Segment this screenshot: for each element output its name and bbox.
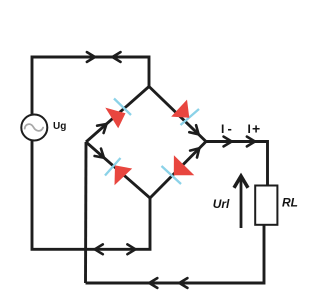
arrow on upper-left arm toward T bbox=[97, 124, 106, 133]
arrow right on output wire under I+ bbox=[247, 137, 255, 147]
Url voltage arrowhead up bbox=[234, 176, 248, 188]
svg-text:Ug: Ug bbox=[53, 121, 66, 132]
Url voltage arrow shaft bbox=[240, 179, 243, 228]
wire bottom return from left node to RL bottom bbox=[86, 225, 265, 283]
arrow right on middle bottom wire bbox=[127, 244, 135, 254]
arrow on upper-right arm toward R bbox=[189, 125, 198, 134]
arrow left on middle bottom wire bbox=[95, 244, 103, 254]
wire bridge arm T to R (upper-right) bbox=[149, 87, 206, 142]
wire bridge right node to RL top (positive output) bbox=[206, 142, 268, 186]
arrow right on top wire bbox=[87, 52, 95, 62]
AC source U_g circle bbox=[21, 115, 47, 141]
wire from Ug bottom terminal down and across to bridge bottom node bbox=[32, 140, 150, 249]
arrow left on bottom return wire (second) bbox=[179, 278, 187, 288]
diode D4 lower-left arm (points B to L) bbox=[105, 158, 132, 185]
svg-text:-: - bbox=[228, 121, 232, 136]
svg-text:RL: RL bbox=[282, 196, 298, 210]
arrow right on output wire under I- bbox=[224, 137, 232, 147]
wire bridge arm L to T (upper-left) bbox=[86, 87, 149, 143]
wire bridge arm B to R (lower-right) bbox=[150, 142, 206, 199]
svg-text:I: I bbox=[248, 122, 251, 136]
wire bridge left node down to bottom return bbox=[84, 142, 87, 283]
svg-text:+: + bbox=[252, 121, 260, 137]
arrow on lower-left arm toward B bbox=[95, 149, 104, 158]
wire bridge arm L to B (lower-left) bbox=[86, 142, 150, 198]
resistor RL box bbox=[255, 186, 277, 225]
svg-text:I: I bbox=[221, 122, 224, 136]
arrow left on bottom return wire (first) bbox=[149, 278, 157, 288]
diode D2 upper-right arm (points T to R) bbox=[171, 100, 199, 125]
wire from Ug top terminal up and across to bridge top node bbox=[32, 57, 149, 115]
diode D1 upper-left arm (points L to T) bbox=[105, 99, 131, 129]
svg-text:Url: Url bbox=[213, 197, 230, 211]
arrow left on top wire bbox=[112, 52, 120, 62]
diode D3 lower-right arm (points R to B) bbox=[162, 155, 195, 184]
sine symbol inside source bbox=[25, 124, 43, 131]
arrow on lower-right arm toward R bbox=[190, 148, 199, 157]
